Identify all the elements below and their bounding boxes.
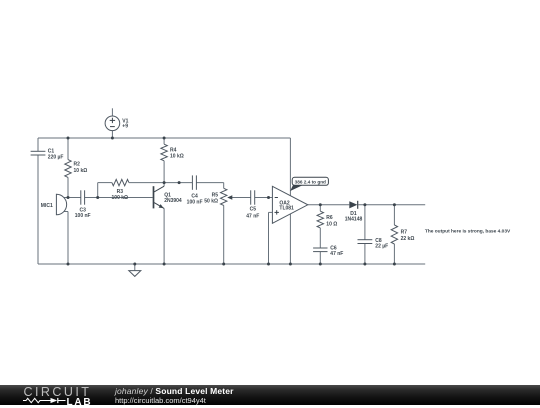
svg-text:386 2.4 to gnd: 386 2.4 to gnd <box>295 180 326 185</box>
svg-text:22 kΩ: 22 kΩ <box>401 236 415 242</box>
svg-text:R6: R6 <box>326 215 333 221</box>
svg-text:MIC1: MIC1 <box>41 203 53 209</box>
svg-text:100 kΩ: 100 kΩ <box>112 195 129 201</box>
svg-text:47 nF: 47 nF <box>246 213 259 219</box>
svg-text:1N4148: 1N4148 <box>345 217 363 223</box>
svg-text:The output here is strong, bas: The output here is strong, base 4.03V <box>425 228 511 234</box>
svg-text:10 kΩ: 10 kΩ <box>170 154 184 160</box>
svg-text:50 kΩ: 50 kΩ <box>204 198 218 204</box>
svg-text:100 nF: 100 nF <box>75 213 91 219</box>
svg-text:C5: C5 <box>250 206 257 212</box>
svg-text:47 nF: 47 nF <box>330 251 343 257</box>
svg-text:2N3904: 2N3904 <box>164 198 182 204</box>
svg-text:R4: R4 <box>170 147 177 153</box>
svg-text:+9: +9 <box>122 124 128 130</box>
svg-text:TL081: TL081 <box>279 205 294 211</box>
svg-text:10 Ω: 10 Ω <box>326 222 337 228</box>
svg-text:R7: R7 <box>401 230 408 236</box>
svg-text:10 kΩ: 10 kΩ <box>74 168 88 174</box>
svg-text:R2: R2 <box>74 162 81 168</box>
svg-text:22 µF: 22 µF <box>375 243 388 249</box>
svg-text:100 nF: 100 nF <box>187 199 203 205</box>
svg-text:220 µF: 220 µF <box>48 154 64 160</box>
